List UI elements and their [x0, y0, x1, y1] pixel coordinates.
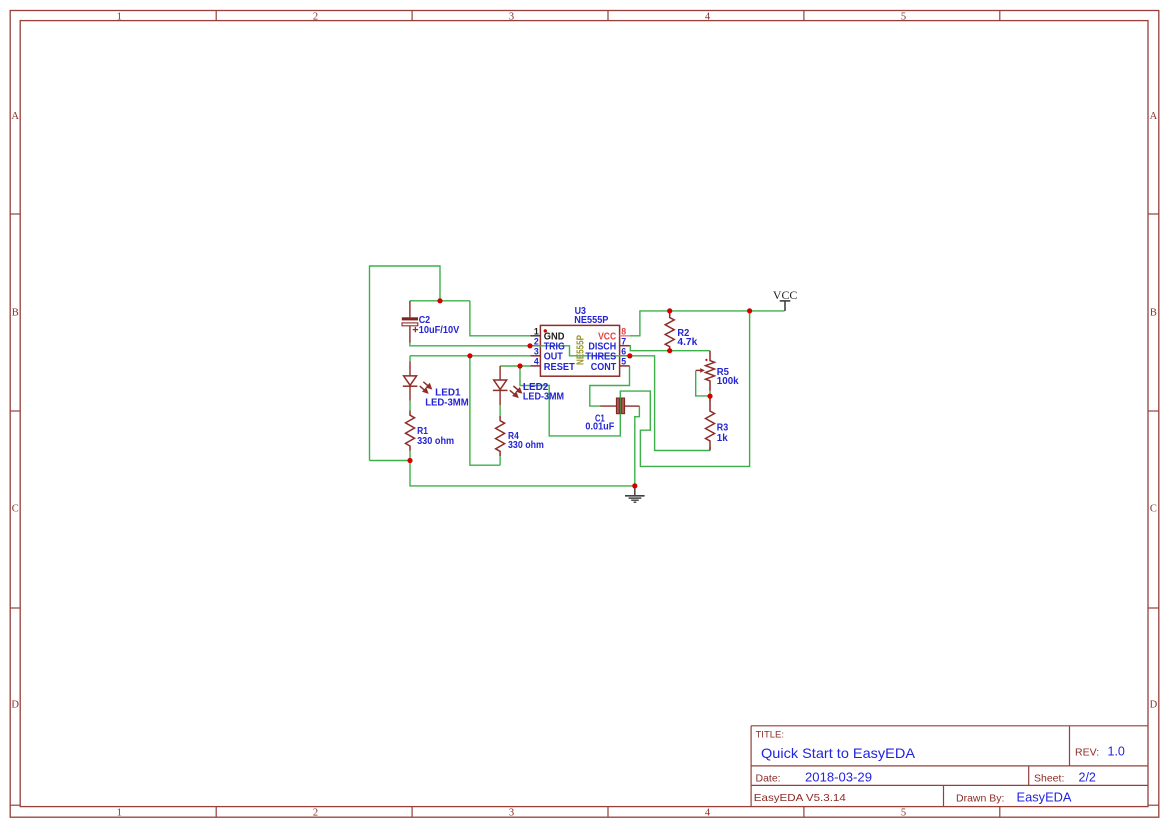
svg-text:4.7k: 4.7k	[677, 337, 697, 348]
svg-text:1: 1	[117, 808, 122, 819]
wire: C1 right to ground junction	[635, 406, 640, 486]
wire: LED1 column greens	[409, 356, 411, 362]
svg-text:Drawn By:: Drawn By:	[956, 793, 1004, 805]
wire: DISCH pin 7 to R2/R5	[630, 346, 710, 351]
svg-text:VCC: VCC	[773, 288, 798, 302]
junction ground node	[632, 483, 637, 488]
junction VCC rail corner	[747, 308, 752, 313]
wire: OUT branch down to R4 bottom	[470, 356, 500, 465]
svg-text:EasyEDA: EasyEDA	[1017, 790, 1072, 805]
svg-text:3: 3	[509, 808, 514, 819]
svg-text:REV:: REV:	[1075, 746, 1099, 758]
svg-text:8: 8	[621, 327, 626, 337]
svg-text:C: C	[1150, 503, 1157, 514]
svg-text:LED-3MM: LED-3MM	[523, 392, 564, 403]
resistor R3 1k	[706, 396, 715, 450]
junction R2 top VCC rail	[667, 308, 672, 313]
ground symbol	[625, 486, 645, 502]
wire: to pin 1 GND	[470, 301, 531, 336]
wire: VCC maze from pin4 junction to VCC rail	[520, 311, 750, 467]
wire: pin 8 to VCC rail	[630, 311, 785, 336]
svg-text:7: 7	[621, 337, 626, 347]
svg-text:1: 1	[117, 11, 122, 22]
svg-text:2/2: 2/2	[1079, 771, 1096, 785]
svg-text:6: 6	[621, 347, 626, 357]
U3 pin 4 line	[530, 365, 540, 367]
wire: GND net left loop (C2 top / pin1 / left rail)	[370, 266, 441, 461]
svg-text:5: 5	[621, 357, 626, 367]
wire: CONT pin 5 to C1 left	[590, 366, 630, 406]
svg-text:LED-3MM: LED-3MM	[425, 397, 469, 408]
junction pin2 TRIG	[527, 343, 532, 348]
svg-text:B: B	[1150, 307, 1157, 318]
title block	[751, 726, 1148, 807]
junction pin6 THRES	[627, 353, 632, 358]
svg-text:10uF/10V: 10uF/10V	[419, 325, 460, 336]
svg-text:Date:: Date:	[756, 773, 781, 785]
svg-text:1: 1	[534, 327, 539, 337]
capacitor C1 (0.01uF)	[600, 398, 639, 414]
svg-text:2018-03-29: 2018-03-29	[805, 771, 872, 785]
svg-text:Sheet:: Sheet:	[1034, 773, 1064, 785]
svg-text:5: 5	[901, 808, 906, 819]
svg-text:A: A	[11, 111, 19, 122]
U3 pin numbers	[534, 327, 626, 367]
svg-text:A: A	[1150, 111, 1158, 122]
resistor R4 330 ohm	[496, 416, 505, 456]
VCC power symbol	[780, 301, 791, 311]
svg-text:R3: R3	[717, 423, 729, 434]
svg-text:B: B	[12, 307, 19, 318]
svg-text:CONT: CONT	[591, 362, 616, 373]
svg-text:4: 4	[705, 808, 711, 819]
U3 pin 2 line	[530, 345, 540, 347]
svg-text:TITLE:: TITLE:	[756, 730, 785, 741]
wire: ground bottom run	[370, 461, 635, 486]
U3 pin 7 line	[620, 345, 630, 347]
junction R5/R3	[707, 394, 712, 399]
svg-text:D: D	[1150, 699, 1158, 710]
wire: TRIG to THRES through IC	[530, 346, 629, 356]
svg-text:100k: 100k	[717, 376, 739, 387]
resistor R2 4.7k	[665, 311, 674, 351]
svg-text:D: D	[11, 699, 19, 710]
wire: pin 4 RESET to LED2 top	[500, 365, 530, 367]
potentiometer R5 100k	[696, 351, 715, 391]
LED2 (LED-3MM)	[493, 366, 523, 405]
svg-text:2: 2	[313, 808, 318, 819]
junction pin4 RESET	[517, 363, 522, 368]
svg-text:330 ohm: 330 ohm	[417, 436, 454, 447]
capacitor C2 (10uF/10V electrolytic)	[402, 301, 418, 343]
wire: C2 top horizontal	[410, 300, 470, 302]
svg-text:C: C	[12, 503, 19, 514]
wire: R5 bottom to junction	[709, 391, 711, 396]
wire: OUT net pin 3 to LED1	[410, 355, 530, 357]
wire: THRES pin6 to R3 bottom	[630, 356, 710, 451]
svg-text:4: 4	[705, 11, 711, 22]
svg-text:NE555P: NE555P	[576, 335, 587, 365]
junction C2 top / GND net	[437, 298, 442, 303]
svg-text:NE555P: NE555P	[574, 315, 609, 326]
svg-text:1.0: 1.0	[1108, 744, 1125, 758]
U3 pin names	[544, 332, 617, 373]
U3 pin 8 line	[620, 335, 630, 337]
U3 pin 5 line	[620, 365, 630, 367]
wire: R5 wiper loop	[696, 370, 710, 396]
svg-text:330 ohm: 330 ohm	[508, 440, 544, 451]
svg-text:EasyEDA V5.3.14: EasyEDA V5.3.14	[754, 792, 846, 804]
svg-text:3: 3	[509, 11, 514, 22]
svg-text:RESET: RESET	[544, 362, 575, 373]
junction R2 bottom DISCH	[667, 348, 672, 353]
U3 pin 6 line	[620, 355, 630, 357]
U3 pin 3 line	[530, 355, 540, 357]
resistor R1 330 ohm	[406, 411, 415, 451]
junction OUT net	[467, 353, 472, 358]
wire: LED2 column greens	[499, 405, 501, 416]
svg-text:2: 2	[534, 337, 539, 347]
svg-text:1k: 1k	[717, 433, 728, 444]
U3 pin 1 line	[530, 335, 540, 337]
svg-text:Quick Start to EasyEDA: Quick Start to EasyEDA	[761, 745, 916, 761]
op-amp timer U3 NE555P body	[540, 325, 619, 376]
svg-text:3: 3	[534, 347, 539, 357]
U3 pin 1 indicator dot	[544, 329, 547, 332]
junction R1 bottom	[407, 458, 412, 463]
svg-text:5: 5	[901, 11, 906, 22]
wire: TRIG net C2 bottom to pin 2	[410, 342, 531, 346]
svg-text:4: 4	[534, 357, 539, 367]
wire: R3 greens	[709, 396, 711, 401]
svg-text:0.01uF: 0.01uF	[585, 421, 614, 432]
LED1 (LED-3MM)	[403, 361, 433, 400]
svg-text:2: 2	[313, 11, 318, 22]
